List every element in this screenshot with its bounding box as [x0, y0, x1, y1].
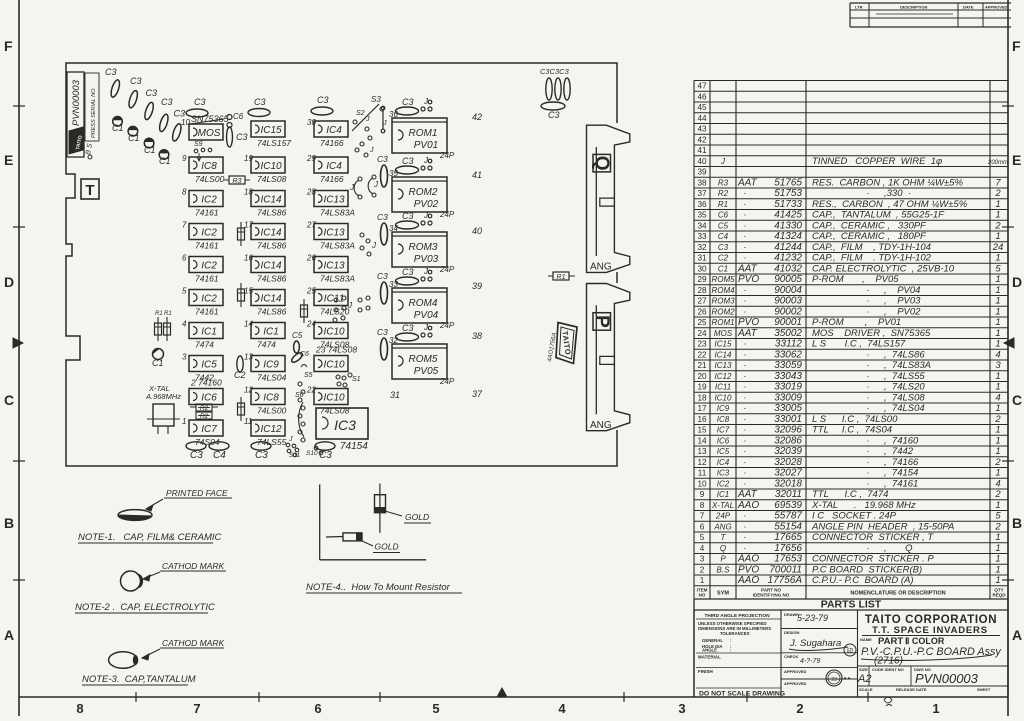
- svg-text:E: E: [1012, 152, 1021, 168]
- svg-text:IC9: IC9: [717, 404, 730, 413]
- svg-text:28: 28: [306, 188, 316, 197]
- svg-text:A: A: [4, 627, 14, 643]
- svg-text:IC8: IC8: [263, 393, 279, 404]
- svg-text:40: 40: [472, 226, 482, 236]
- svg-text:THIRD ANGLE PROJECTION: THIRD ANGLE PROJECTION: [704, 613, 770, 619]
- svg-text:DESCRIPTION: DESCRIPTION: [900, 5, 927, 10]
- svg-text:14: 14: [244, 320, 253, 329]
- svg-text:AAT: AAT: [737, 263, 758, 274]
- svg-text:C3: C3: [718, 243, 729, 252]
- svg-text:CATHOD MARK: CATHOD MARK: [162, 638, 225, 648]
- svg-text:C6: C6: [718, 211, 729, 220]
- svg-text:C6: C6: [233, 112, 244, 121]
- svg-text:IC8: IC8: [717, 415, 730, 424]
- svg-text:A2: A2: [857, 673, 871, 685]
- svg-text:24P: 24P: [439, 151, 455, 160]
- svg-text:33062: 33062: [774, 349, 802, 360]
- svg-text:AAO: AAO: [737, 554, 759, 565]
- svg-text:IC5: IC5: [717, 447, 730, 456]
- svg-text:17756A: 17756A: [768, 575, 803, 586]
- svg-text:I C SOCKET . 24P: I C SOCKET . 24P: [812, 511, 897, 522]
- svg-text:, Q: , Q: [884, 543, 913, 554]
- svg-text:6: 6: [314, 701, 321, 716]
- svg-text:X-TAL: X-TAL: [711, 501, 734, 510]
- svg-text:DESIGN: DESIGN: [784, 630, 799, 635]
- svg-text:ROM2: ROM2: [711, 307, 735, 316]
- svg-text:23: 23: [831, 677, 837, 683]
- svg-text:NOTE-3. CAP,TANTALUM: NOTE-3. CAP,TANTALUM: [82, 674, 196, 685]
- svg-text:, PV04: , PV04: [884, 285, 920, 296]
- svg-text:24P: 24P: [439, 210, 455, 219]
- svg-text:1: 1: [932, 701, 939, 716]
- svg-text:ANG: ANG: [590, 262, 612, 273]
- svg-text:·: ·: [744, 296, 747, 306]
- svg-text:IC7: IC7: [717, 426, 730, 435]
- svg-text:·: ·: [744, 306, 747, 316]
- svg-text:1: 1: [995, 231, 1000, 242]
- svg-text:S6: S6: [295, 392, 304, 399]
- svg-text:IC1: IC1: [201, 327, 217, 338]
- svg-text:20: 20: [697, 372, 707, 381]
- svg-text:90002: 90002: [774, 306, 802, 317]
- svg-text:SHEET: SHEET: [977, 687, 991, 692]
- svg-text:·: ·: [744, 468, 747, 478]
- svg-text:PVO: PVO: [738, 564, 759, 575]
- svg-text:74LS08: 74LS08: [320, 406, 350, 416]
- svg-text:5: 5: [432, 701, 439, 716]
- svg-text:S10: S10: [306, 450, 318, 457]
- svg-text:AAT: AAT: [737, 328, 758, 339]
- svg-text:74161: 74161: [195, 241, 219, 251]
- svg-text:6: 6: [182, 254, 187, 263]
- svg-text:25: 25: [697, 318, 707, 327]
- svg-text:74LS86: 74LS86: [257, 208, 287, 218]
- svg-text:26: 26: [306, 254, 316, 263]
- svg-text:ROM3: ROM3: [711, 297, 735, 306]
- svg-text:41425: 41425: [774, 210, 802, 221]
- svg-text:NO: NO: [699, 593, 706, 598]
- svg-text:32018: 32018: [774, 478, 802, 489]
- svg-text:CONNECTOR STICKER , T: CONNECTOR STICKER , T: [812, 532, 934, 543]
- svg-text:17665: 17665: [774, 532, 802, 543]
- svg-text:37: 37: [697, 189, 707, 198]
- svg-text:·: ·: [867, 543, 870, 553]
- svg-text:IC2: IC2: [201, 294, 217, 305]
- svg-text:33112: 33112: [775, 339, 803, 350]
- svg-text:19: 19: [697, 383, 707, 392]
- svg-text:B.S: B.S: [717, 565, 731, 574]
- svg-text:9: 9: [700, 490, 705, 499]
- svg-text:9: 9: [182, 154, 187, 163]
- svg-text:15: 15: [697, 426, 707, 435]
- svg-text:16: 16: [244, 254, 253, 263]
- svg-text:PVN00003: PVN00003: [71, 79, 82, 126]
- svg-text:S5: S5: [304, 372, 313, 379]
- svg-text:3: 3: [678, 701, 685, 716]
- svg-text:18: 18: [244, 188, 253, 197]
- svg-text:·: ·: [744, 435, 747, 445]
- svg-text:P-ROM , PV01: P-ROM , PV01: [812, 317, 901, 328]
- svg-text:C1: C1: [718, 264, 728, 273]
- svg-text:B: B: [1012, 515, 1022, 531]
- svg-text:IC2: IC2: [201, 261, 217, 272]
- svg-text:C.P.U.- P.C BOARD (A): C.P.U.- P.C BOARD (A): [812, 575, 914, 586]
- svg-text:41032: 41032: [774, 263, 802, 274]
- svg-text:, PV02: , PV02: [884, 306, 921, 317]
- svg-text:J: J: [365, 116, 370, 123]
- svg-text:IC5: IC5: [201, 360, 217, 371]
- svg-text:·: ·: [867, 360, 870, 370]
- svg-text:, 7442: , 7442: [884, 446, 914, 457]
- svg-text:DO NOT SCALE DRAWING: DO NOT SCALE DRAWING: [699, 691, 785, 698]
- svg-text:24: 24: [306, 320, 316, 329]
- svg-text:PVO: PVO: [738, 274, 759, 285]
- svg-text:40: 40: [697, 157, 707, 166]
- svg-text:23 74LS08: 23 74LS08: [315, 345, 357, 355]
- svg-text:1: 1: [182, 417, 186, 426]
- svg-text:74161: 74161: [195, 307, 219, 317]
- svg-text:33: 33: [697, 232, 707, 241]
- svg-text:74LS08: 74LS08: [257, 174, 287, 184]
- svg-text:PRESS SERIAL NO.: PRESS SERIAL NO.: [91, 87, 97, 138]
- svg-text:35002: 35002: [774, 328, 802, 339]
- svg-text:L S I.C , 74LS157: L S I.C , 74LS157: [812, 339, 906, 350]
- svg-text:P: P: [720, 555, 726, 564]
- svg-text:1: 1: [995, 306, 1000, 317]
- svg-text:PARTS LIST: PARTS LIST: [821, 599, 882, 611]
- svg-text:CAP., FILM . TDY-1H-102: CAP., FILM . TDY-1H-102: [812, 253, 932, 264]
- svg-text:R2: R2: [200, 405, 209, 412]
- svg-text:IC2: IC2: [201, 195, 217, 206]
- svg-text:32: 32: [389, 336, 398, 345]
- svg-text:, 74LS86: , 74LS86: [884, 349, 925, 360]
- svg-text:30: 30: [307, 118, 316, 127]
- svg-text:MATERIAL: MATERIAL: [698, 655, 721, 660]
- svg-text:35: 35: [389, 169, 398, 178]
- svg-text:46: 46: [697, 92, 707, 101]
- svg-text:·: ·: [744, 521, 747, 531]
- svg-text:·: ·: [744, 360, 747, 370]
- svg-text:IC10: IC10: [323, 393, 345, 404]
- svg-text:SCALE: SCALE: [859, 687, 873, 692]
- svg-text:3: 3: [995, 360, 1001, 371]
- svg-text:90004: 90004: [774, 285, 802, 296]
- svg-text:37: 37: [472, 389, 483, 399]
- svg-text:11: 11: [698, 469, 707, 478]
- svg-text:IC9: IC9: [263, 360, 279, 371]
- svg-text:R2: R2: [200, 413, 209, 420]
- svg-text:7: 7: [700, 512, 705, 521]
- svg-text:33001: 33001: [774, 414, 802, 425]
- svg-text:33059: 33059: [774, 360, 802, 371]
- svg-text:F: F: [1012, 38, 1021, 54]
- svg-text:74166: 74166: [320, 174, 344, 184]
- svg-text:ANGLE: ANGLE: [702, 648, 717, 653]
- svg-text:·: ·: [867, 446, 870, 456]
- svg-text:74LS86: 74LS86: [257, 307, 287, 317]
- svg-text:·: ·: [867, 349, 870, 359]
- svg-text:RES., CARBON , 47 OHM ¼W±5%: RES., CARBON , 47 OHM ¼W±5%: [812, 199, 968, 210]
- svg-text:2: 2: [796, 701, 803, 716]
- svg-text:·: ·: [867, 306, 870, 316]
- svg-text:700011: 700011: [769, 564, 802, 575]
- svg-text:ROM3: ROM3: [409, 242, 438, 253]
- svg-text:RES. CARBON , 1K OHM ¼W±5%: RES. CARBON , 1K OHM ¼W±5%: [812, 177, 963, 188]
- svg-text:LTR: LTR: [855, 5, 863, 10]
- svg-text:C5: C5: [718, 221, 729, 230]
- svg-text:34: 34: [389, 224, 398, 233]
- svg-text:10: 10: [181, 118, 190, 127]
- svg-text:T: T: [85, 182, 94, 199]
- svg-text:·: ·: [867, 382, 870, 392]
- svg-text:1: 1: [995, 199, 1000, 210]
- svg-text:C1: C1: [128, 133, 140, 143]
- svg-text:ROM5: ROM5: [711, 275, 735, 284]
- svg-text:CAP., FILM , TDY-1H-104: CAP., FILM , TDY-1H-104: [812, 242, 931, 253]
- svg-text:51765: 51765: [774, 177, 802, 188]
- svg-text:74LS00: 74LS00: [257, 406, 287, 416]
- svg-text:1: 1: [995, 285, 1000, 296]
- svg-text:2: 2: [700, 565, 705, 574]
- svg-text:C2: C2: [718, 254, 729, 263]
- svg-text:IC7: IC7: [201, 424, 217, 435]
- svg-text:·: ·: [867, 478, 870, 488]
- svg-text:A: A: [1012, 627, 1022, 643]
- svg-text:IC1: IC1: [717, 490, 729, 499]
- svg-text:41330: 41330: [774, 220, 802, 231]
- svg-text:NOMENCLATURE OR DESCRIPTION: NOMENCLATURE OR DESCRIPTION: [850, 591, 945, 597]
- svg-text:IC14: IC14: [260, 294, 282, 305]
- svg-text:J: J: [369, 147, 374, 154]
- svg-text:C3: C3: [254, 97, 266, 107]
- svg-text:2: 2: [994, 521, 1001, 532]
- svg-text:IDENTIFYING NO: IDENTIFYING NO: [753, 593, 790, 598]
- svg-text:ROM4: ROM4: [409, 298, 438, 309]
- svg-text:ROM1: ROM1: [711, 318, 734, 327]
- svg-text:7: 7: [995, 177, 1001, 188]
- svg-text:·: ·: [744, 339, 747, 349]
- svg-text:·: ·: [867, 468, 870, 478]
- svg-text:PRINTED FACE: PRINTED FACE: [166, 488, 228, 498]
- svg-text:31: 31: [697, 254, 707, 263]
- svg-text:90003: 90003: [774, 296, 802, 307]
- svg-text:CONNECTOR STICKER . P: CONNECTOR STICKER . P: [812, 554, 934, 565]
- svg-text:APPROVED: APPROVED: [985, 5, 1008, 10]
- svg-text:·: ·: [744, 220, 747, 230]
- svg-text:32011: 32011: [775, 489, 802, 500]
- svg-text:TTL I.C , 74S04: TTL I.C , 74S04: [812, 425, 892, 436]
- svg-text:38: 38: [697, 178, 707, 187]
- svg-text:2: 2: [994, 220, 1001, 231]
- svg-text:GOLD: GOLD: [375, 542, 399, 552]
- svg-text:ROM1: ROM1: [409, 128, 438, 139]
- svg-text:IC10: IC10: [323, 360, 345, 371]
- svg-text:C3: C3: [146, 88, 158, 98]
- svg-text:1: 1: [995, 564, 1000, 575]
- svg-text:R1: R1: [557, 274, 566, 281]
- svg-text:·: ·: [867, 392, 870, 402]
- svg-text:22: 22: [697, 350, 707, 359]
- svg-text:1: 1: [995, 468, 1000, 479]
- svg-text:18: 18: [697, 393, 707, 402]
- svg-text:, 74LS08: , 74LS08: [884, 392, 925, 403]
- svg-text:·: ·: [744, 349, 747, 359]
- svg-text:4: 4: [558, 701, 566, 716]
- svg-text:S3: S3: [371, 95, 381, 104]
- svg-text:F: F: [4, 38, 13, 54]
- svg-text:1: 1: [995, 371, 1000, 382]
- svg-text:IC15: IC15: [715, 340, 732, 349]
- svg-text:AAO: AAO: [737, 500, 759, 511]
- svg-text:P-ROM , PV05: P-ROM , PV05: [812, 274, 899, 285]
- svg-text:24P: 24P: [439, 377, 455, 386]
- svg-text:TTL I.C , 7474: TTL I.C , 7474: [812, 489, 888, 500]
- svg-text:L S I.C , 74LS00: L S I.C , 74LS00: [812, 414, 898, 425]
- svg-text:1: 1: [995, 500, 1000, 511]
- svg-text:4: 4: [995, 392, 1000, 403]
- svg-text:1: 1: [995, 382, 1000, 393]
- svg-text:P.C BOARD STICKER(B): P.C BOARD STICKER(B): [812, 564, 922, 575]
- svg-text:74154: 74154: [340, 441, 368, 452]
- svg-text:IC1: IC1: [263, 327, 279, 338]
- svg-text:R3: R3: [718, 178, 729, 187]
- svg-text:23: 23: [697, 340, 707, 349]
- svg-text:PVO: PVO: [738, 317, 759, 328]
- svg-text:·: ·: [744, 188, 747, 198]
- svg-text:2: 2: [994, 457, 1001, 468]
- svg-text:DATE: DATE: [963, 5, 974, 10]
- svg-text:印: 印: [847, 648, 853, 655]
- svg-text:24P: 24P: [715, 512, 731, 521]
- svg-text:200mm: 200mm: [987, 160, 1008, 166]
- svg-text:14: 14: [697, 436, 707, 445]
- svg-text:·: ·: [867, 403, 870, 413]
- svg-text:24: 24: [697, 329, 707, 338]
- svg-text:C3: C3: [190, 450, 203, 461]
- svg-text:16: 16: [697, 415, 707, 424]
- svg-text:7474: 7474: [195, 340, 214, 350]
- svg-text:GENERAL: GENERAL: [702, 638, 723, 643]
- svg-text:12: 12: [244, 386, 253, 395]
- svg-text:27: 27: [306, 221, 316, 230]
- svg-text:C3: C3: [402, 267, 414, 277]
- svg-text:, 74154: , 74154: [884, 468, 918, 479]
- svg-text:·: ·: [744, 382, 747, 392]
- svg-text:74LS157: 74LS157: [257, 138, 291, 148]
- svg-text:C1: C1: [159, 156, 171, 166]
- svg-text:2: 2: [994, 489, 1001, 500]
- svg-text:44: 44: [697, 114, 707, 123]
- svg-text:31: 31: [390, 390, 400, 400]
- svg-text:R1: R1: [164, 311, 172, 317]
- svg-text:IC13: IC13: [715, 361, 732, 370]
- svg-text:C1: C1: [152, 358, 164, 368]
- svg-text:IC3: IC3: [717, 469, 730, 478]
- svg-text:IC12: IC12: [260, 424, 282, 435]
- svg-text:, 74LS04: , 74LS04: [884, 403, 925, 414]
- svg-text:C3: C3: [402, 97, 414, 107]
- svg-text:, 74LS20: , 74LS20: [884, 382, 925, 393]
- svg-text:Q: Q: [720, 544, 726, 553]
- svg-text:MOS DRIVER , SN75365: MOS DRIVER , SN75365: [812, 328, 931, 339]
- svg-text:·: ·: [744, 414, 747, 424]
- svg-text:TOLERANCES: TOLERANCES: [720, 631, 750, 636]
- svg-text:5: 5: [700, 533, 705, 542]
- svg-text:25: 25: [306, 287, 316, 296]
- svg-text:6: 6: [700, 522, 705, 531]
- svg-text:1: 1: [995, 296, 1000, 307]
- svg-text:42: 42: [472, 112, 482, 122]
- svg-text:C3: C3: [402, 156, 414, 166]
- svg-text:C3: C3: [402, 323, 414, 333]
- svg-text:32027: 32027: [774, 468, 802, 479]
- svg-text:C3C3C3: C3C3C3: [540, 67, 570, 76]
- svg-text:PV02: PV02: [414, 199, 439, 210]
- svg-text:5: 5: [995, 263, 1001, 274]
- svg-text:C3: C3: [377, 271, 388, 281]
- svg-text:C: C: [4, 392, 14, 408]
- svg-text:, 74161: , 74161: [884, 478, 918, 489]
- svg-text:28: 28: [697, 286, 707, 295]
- svg-text:IC13: IC13: [323, 195, 345, 206]
- svg-text:SYM: SYM: [717, 591, 729, 597]
- svg-text:17: 17: [697, 404, 707, 413]
- svg-text:1: 1: [995, 446, 1000, 457]
- svg-text:17653: 17653: [774, 554, 802, 565]
- svg-text:IC14: IC14: [260, 195, 282, 206]
- svg-text:C3: C3: [402, 211, 414, 221]
- svg-text:IC8: IC8: [201, 161, 217, 172]
- svg-text:Ⅱ COLOR: Ⅱ COLOR: [905, 636, 945, 646]
- svg-text:39: 39: [472, 281, 482, 291]
- svg-text:8: 8: [76, 701, 83, 716]
- svg-text:·: ·: [867, 188, 870, 198]
- svg-text:MOS: MOS: [198, 128, 221, 139]
- svg-text:32028: 32028: [774, 457, 802, 468]
- svg-text:T.T. SPACE INVADERS: T.T. SPACE INVADERS: [872, 625, 988, 636]
- svg-text:1: 1: [995, 543, 1000, 554]
- svg-text:C3: C3: [319, 450, 332, 461]
- svg-text:5: 5: [995, 511, 1001, 522]
- svg-text:·: ·: [867, 457, 870, 467]
- svg-text:33043: 33043: [774, 371, 802, 382]
- svg-text:PV01: PV01: [414, 140, 438, 151]
- svg-text:IC12: IC12: [715, 372, 732, 381]
- svg-text:AAT: AAT: [737, 177, 758, 188]
- svg-text:CHECK: CHECK: [784, 654, 798, 659]
- svg-text:C4: C4: [213, 450, 226, 461]
- svg-text:,330 ·: ,330 ·: [884, 188, 911, 199]
- svg-text:12: 12: [697, 458, 707, 467]
- svg-text:C3: C3: [317, 95, 329, 105]
- svg-text:41324: 41324: [774, 231, 802, 242]
- svg-text:55154: 55154: [774, 521, 802, 532]
- svg-text:IC10: IC10: [323, 327, 345, 338]
- svg-text:35: 35: [697, 211, 707, 220]
- svg-text:29: 29: [697, 275, 707, 284]
- svg-text:IC2: IC2: [201, 228, 217, 239]
- svg-text:C5: C5: [292, 331, 303, 340]
- svg-text:NOTE-4.. How To Mount Resisto: NOTE-4.. How To Mount Resistor: [306, 582, 451, 593]
- svg-text:74LS86: 74LS86: [257, 274, 287, 284]
- svg-text:1: 1: [995, 317, 1000, 328]
- svg-text:IC14: IC14: [715, 350, 732, 359]
- svg-text:J: J: [288, 436, 293, 443]
- svg-text:J. Sugahara: J. Sugahara: [789, 638, 841, 649]
- svg-text:·: ·: [867, 435, 870, 445]
- svg-text:11: 11: [244, 417, 252, 426]
- svg-text:4: 4: [995, 349, 1000, 360]
